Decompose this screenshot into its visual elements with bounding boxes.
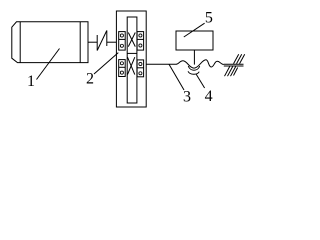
svg-text:5: 5 bbox=[205, 9, 213, 26]
svg-text:3: 3 bbox=[183, 89, 191, 106]
svg-text:2: 2 bbox=[86, 71, 94, 88]
svg-text:1: 1 bbox=[27, 73, 35, 90]
svg-text:4: 4 bbox=[205, 88, 213, 105]
